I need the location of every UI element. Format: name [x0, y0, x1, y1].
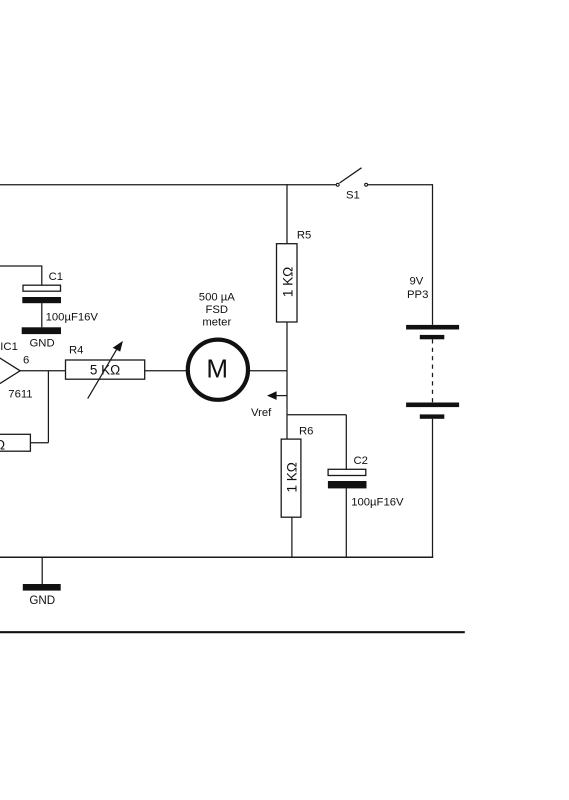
ground (bottom rail): [23, 557, 61, 607]
wire bottom rail: [0, 556, 433, 558]
wire R6 bottom to bottom rail: [291, 517, 293, 558]
variable resistor R4 5 KΩ: [66, 341, 145, 399]
battery BT1 9V PP3: [406, 276, 459, 419]
svg-text:C1: C1: [49, 271, 63, 283]
svg-text:C2: C2: [354, 455, 368, 467]
wire op-amp output to R4: [19, 370, 65, 372]
svg-text:100µF16V: 100µF16V: [46, 311, 99, 323]
svg-text:6: 6: [23, 354, 29, 366]
wire output node down to feedback resistor: [30, 371, 48, 443]
svg-text:GND: GND: [30, 338, 55, 350]
svg-text:Vref: Vref: [251, 407, 272, 419]
meter M1 500 µA FSD: [188, 292, 248, 400]
resistor R5 1 KΩ: [277, 229, 312, 322]
svg-text:9V: 9V: [410, 276, 424, 288]
feedback resistor (partially visible): [0, 434, 30, 452]
svg-text:PP3: PP3: [407, 289, 428, 301]
svg-text:GND: GND: [29, 594, 55, 607]
ground (C1): [22, 327, 61, 349]
divider line: [0, 631, 465, 633]
svg-text:R5: R5: [297, 229, 311, 241]
svg-text:100µF16V: 100µF16V: [351, 497, 404, 509]
svg-text:meter: meter: [202, 317, 231, 329]
wire top rail right of switch to battery corner: [368, 184, 433, 325]
svg-text:IC1: IC1: [0, 341, 18, 353]
svg-text:R6: R6: [299, 426, 313, 438]
svg-text:1 KΩ: 1 KΩ: [285, 462, 300, 492]
wire R4 to meter: [145, 370, 186, 372]
capacitor C1 100µF16V: [0, 265, 98, 327]
svg-text:500 µA: 500 µA: [199, 292, 235, 304]
svg-text:7611: 7611: [8, 388, 32, 400]
wire battery negative to bottom rail: [432, 419, 434, 558]
wire top rail left of switch: [0, 184, 336, 186]
wire top rail to R5: [286, 184, 288, 244]
op-amp IC1 7611: [0, 339, 33, 402]
wire R5 bottom to R6 top (main vertical node): [286, 322, 288, 439]
svg-text:S1: S1: [346, 190, 360, 202]
wire Vref node to C2: [287, 415, 346, 469]
svg-text:Ω: Ω: [0, 437, 5, 452]
svg-text:FSD: FSD: [205, 304, 228, 316]
svg-text:1 KΩ: 1 KΩ: [281, 267, 296, 297]
switch S1: [336, 168, 367, 202]
svg-text:M: M: [206, 353, 228, 383]
wire meter to main vertical node: [248, 370, 287, 372]
svg-text:R4: R4: [69, 344, 83, 356]
node Vref arrow: [251, 391, 287, 419]
resistor R6 1 KΩ: [281, 426, 313, 518]
capacitor C2 100µF16V: [328, 455, 404, 558]
